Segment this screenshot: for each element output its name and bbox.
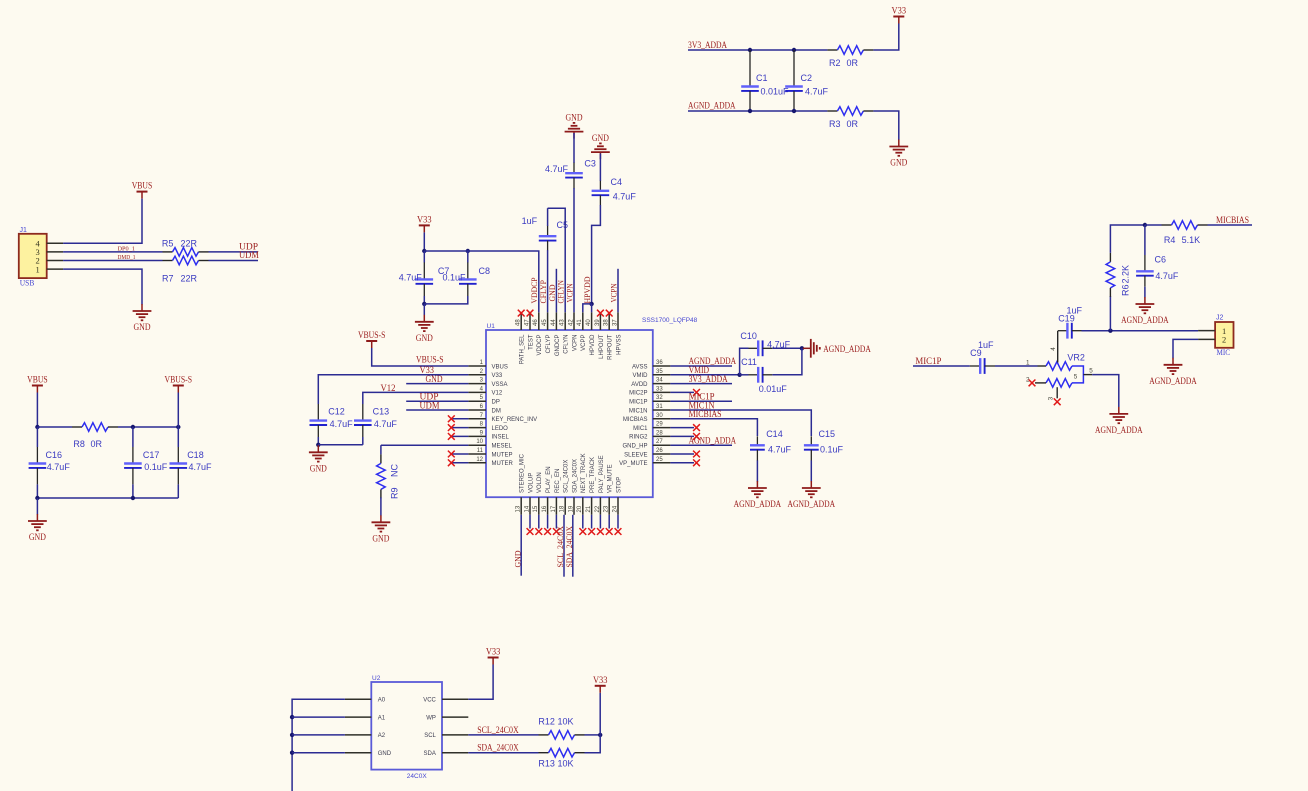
svg-text:VBUS: VBUS <box>27 375 48 385</box>
wire <box>132 484 134 498</box>
svg-text:0.1uF: 0.1uF <box>144 462 168 472</box>
svg-text:3V3_ADDA: 3V3_ADDA <box>688 40 727 50</box>
svg-text:MICBIAS: MICBIAS <box>689 409 722 419</box>
resistor R12 <box>539 731 585 740</box>
svg-text:UDM: UDM <box>239 250 259 260</box>
power V33 <box>486 647 501 665</box>
svg-text:HPVDD: HPVDD <box>590 334 596 356</box>
svg-text:MIC: MIC <box>1217 347 1231 357</box>
wire C5 to pin45 <box>547 250 549 312</box>
svg-text:VCPN: VCPN <box>572 335 578 352</box>
svg-text:USB: USB <box>20 278 35 288</box>
svg-text:NC: NC <box>390 464 400 477</box>
wire C12-C13 bottom <box>318 444 363 446</box>
wire to GND <box>423 304 425 315</box>
wire SDA <box>468 752 538 754</box>
wire pin24 nc <box>617 515 619 529</box>
wire to V33 <box>873 24 898 51</box>
svg-text:PATH_SEL: PATH_SEL <box>520 334 526 364</box>
svg-text:4.7uF: 4.7uF <box>613 191 637 201</box>
junction <box>598 733 602 737</box>
pin 4 V12 <box>468 386 502 396</box>
svg-text:46: 46 <box>533 319 539 326</box>
wire SCL_24C0X pin18 <box>563 515 565 577</box>
wire DMD_1 <box>63 260 162 262</box>
wire to GND <box>873 111 898 140</box>
ground <box>28 514 47 542</box>
wire <box>1144 287 1146 298</box>
svg-text:19: 19 <box>568 505 574 512</box>
junction <box>800 346 804 350</box>
svg-text:4.7uF: 4.7uF <box>330 419 354 429</box>
wire pin26 nc <box>670 453 694 455</box>
svg-text:12: 12 <box>476 457 483 463</box>
no-connect X pin 33 <box>693 389 700 396</box>
svg-text:RHPOUT: RHPOUT <box>608 334 614 360</box>
svg-text:GND: GND <box>426 374 443 384</box>
svg-text:GND: GND <box>378 751 392 757</box>
svg-text:GND_HP: GND_HP <box>622 444 647 450</box>
power VBUS-S <box>165 375 193 393</box>
svg-text:C1: C1 <box>756 73 768 83</box>
svg-text:4: 4 <box>1050 347 1057 351</box>
svg-text:DMD_1: DMD_1 <box>118 255 136 261</box>
wire C5 to pin43 <box>548 208 566 312</box>
svg-text:VBUS-S: VBUS-S <box>165 375 193 385</box>
wire A2 <box>292 734 345 736</box>
svg-text:R3: R3 <box>829 119 841 129</box>
junction <box>131 496 135 500</box>
svg-text:4.7uF: 4.7uF <box>189 462 213 472</box>
svg-text:VP_MUTE: VP_MUTE <box>619 461 647 467</box>
svg-text:KEY_RENC_INV: KEY_RENC_INV <box>492 417 538 423</box>
capacitor C13 <box>354 404 372 437</box>
svg-text:5.1K: 5.1K <box>1182 235 1201 245</box>
pin 2 V33 <box>468 369 502 379</box>
svg-text:22: 22 <box>595 505 601 512</box>
capacitor C4 <box>592 181 610 205</box>
junction <box>792 48 796 52</box>
svg-text:0.1uF: 0.1uF <box>443 273 467 283</box>
no-connect X pin 20 <box>579 528 586 535</box>
pin 43 CFLYN <box>560 312 570 353</box>
svg-text:WP: WP <box>426 715 436 721</box>
wire MICBIAS rail <box>1110 225 1145 253</box>
svg-text:20: 20 <box>577 505 583 512</box>
svg-text:C5: C5 <box>557 220 569 230</box>
svg-text:38: 38 <box>604 319 610 326</box>
no-connect X pin 14 <box>527 528 534 535</box>
wire AGND_ADDA pin27 <box>670 444 732 446</box>
svg-text:MIC1: MIC1 <box>633 426 648 432</box>
pin 16 PLAY_EN <box>542 466 552 514</box>
svg-text:GND: GND <box>372 533 389 543</box>
svg-text:26: 26 <box>656 448 663 454</box>
pin 14 VOLUP <box>524 473 534 515</box>
junction <box>589 302 593 306</box>
wire <box>467 251 469 263</box>
wire <box>36 484 38 498</box>
wire UDP to pin5 <box>406 400 468 402</box>
resistor R13 <box>539 748 585 757</box>
J2 pin 2 <box>1198 335 1226 345</box>
capacitor C11 <box>749 367 773 383</box>
wire to C10 <box>740 348 749 375</box>
power VBUS <box>27 375 48 393</box>
svg-text:22R: 22R <box>181 238 198 248</box>
svg-text:V33: V33 <box>417 214 432 224</box>
wire <box>573 133 575 163</box>
svg-text:MUTEP: MUTEP <box>492 452 513 458</box>
svg-text:R6: R6 <box>1121 284 1131 296</box>
svg-text:V12: V12 <box>492 391 503 397</box>
wire VCPN net pin37 <box>617 269 619 313</box>
svg-text:AGND_ADDA: AGND_ADDA <box>734 499 782 509</box>
pin 17 REC_EN <box>551 469 561 515</box>
pin 3 VSSA <box>468 378 507 388</box>
svg-text:R13: R13 <box>538 759 555 769</box>
svg-text:SLEEVE: SLEEVE <box>624 452 647 458</box>
svg-text:11: 11 <box>477 448 484 454</box>
capacitor C7 <box>416 262 434 296</box>
svg-text:V33: V33 <box>492 373 503 379</box>
wire <box>423 251 425 263</box>
wire to R6 <box>1109 296 1111 331</box>
power VBUS <box>132 181 153 199</box>
wire MIC1P pin32 <box>670 400 732 402</box>
svg-text:MIC1P: MIC1P <box>629 400 647 406</box>
wire <box>177 427 179 447</box>
wire VBUS to J1 pin4 <box>63 199 142 244</box>
svg-text:AGND_ADDA: AGND_ADDA <box>688 101 736 111</box>
svg-text:C11: C11 <box>741 357 757 367</box>
svg-text:MICBIAS: MICBIAS <box>1216 215 1249 225</box>
wire pin9 nc <box>451 435 468 437</box>
capacitor C9 <box>970 358 995 374</box>
U2 pin A0 <box>345 698 386 704</box>
svg-text:2: 2 <box>1222 335 1226 345</box>
svg-text:HPVSS: HPVSS <box>616 335 622 355</box>
pin 22 PALY_PAUSE <box>595 455 605 514</box>
pin 36 AVSS <box>632 360 670 370</box>
wire <box>585 735 601 753</box>
no-connect X pin 28 <box>693 433 700 440</box>
no-connect X pin 23 <box>606 528 613 535</box>
svg-text:VDDCP: VDDCP <box>537 335 543 356</box>
wire UDM to pin6 <box>406 409 468 411</box>
svg-text:27: 27 <box>656 439 663 445</box>
svg-text:SDA_24C0X: SDA_24C0X <box>477 743 519 753</box>
pin 20 NEXT_TRACK <box>577 453 587 514</box>
svg-text:SCL_24C0X: SCL_24C0X <box>477 725 519 735</box>
wire 3V3_ADDA pin34 <box>670 383 732 385</box>
no-connect X pin 17 <box>553 528 560 535</box>
wire J1 pin1 to GND <box>63 269 142 304</box>
ground AGND_ADDA <box>788 481 836 509</box>
pin 1 VBUS <box>468 360 507 370</box>
wire 3V3_ADDA <box>688 49 827 51</box>
svg-text:C14: C14 <box>766 429 783 439</box>
capacitor C2 <box>785 50 803 111</box>
svg-text:3: 3 <box>1047 396 1054 400</box>
wire UDM <box>209 260 259 262</box>
pin 41 VCPP <box>577 312 587 351</box>
pin 28 RING2 <box>629 430 670 440</box>
svg-text:24C0X: 24C0X <box>407 773 428 780</box>
svg-text:2.2K: 2.2K <box>1121 265 1131 284</box>
wire to GND <box>36 498 38 515</box>
wire <box>585 734 601 736</box>
ground AGND_ADDA <box>1095 407 1143 435</box>
svg-text:MIC1P: MIC1P <box>915 356 941 366</box>
power V33 <box>593 675 608 693</box>
svg-text:C18: C18 <box>187 450 204 460</box>
resistor R2 <box>827 46 873 55</box>
svg-text:35: 35 <box>656 369 663 375</box>
pin 44 GNDCP <box>551 312 561 356</box>
wire C19 to J2 <box>1082 330 1199 332</box>
pin 27 GND_HP <box>622 439 670 449</box>
ground AGND_ADDA <box>1121 297 1169 325</box>
pin 8 LEDO <box>468 422 508 432</box>
svg-text:13: 13 <box>516 505 522 512</box>
pin 7 KEY_RENC_INV <box>468 413 537 423</box>
wire GND to pin3 <box>406 383 468 385</box>
wire <box>177 484 179 498</box>
svg-text:GND: GND <box>890 158 907 168</box>
capacitor C6 <box>1136 255 1154 287</box>
no-connect X pin 11 <box>448 451 455 458</box>
wire pin16 nc <box>547 515 549 529</box>
capacitor C15 <box>804 436 819 460</box>
ground <box>889 140 908 168</box>
wire <box>317 437 319 445</box>
wire SDA_24C0X pin19 <box>572 515 574 577</box>
svg-text:45: 45 <box>542 319 548 326</box>
svg-text:10K: 10K <box>558 759 574 769</box>
svg-text:GND: GND <box>512 551 522 568</box>
resistor R3 <box>827 107 873 116</box>
junction <box>748 48 752 52</box>
wire pin28 nc <box>670 435 694 437</box>
ground AGND_ADDA <box>1149 358 1197 386</box>
resistor R6 <box>1106 253 1115 297</box>
svg-text:CFLYN: CFLYN <box>564 335 570 354</box>
connector J2 <box>1215 322 1233 348</box>
wire MIC1P <box>913 365 970 367</box>
wire pin17 nc <box>555 515 557 529</box>
svg-text:V33: V33 <box>892 6 907 16</box>
pin 42 VCPN <box>568 312 578 351</box>
capacitor C16 <box>29 447 47 484</box>
U2 pin SCL <box>424 733 468 739</box>
svg-text:U2: U2 <box>372 675 381 682</box>
svg-text:DM: DM <box>492 408 501 414</box>
wire <box>1145 224 1162 226</box>
svg-text:SDA: SDA <box>424 751 436 757</box>
svg-text:GND: GND <box>547 285 557 302</box>
svg-text:4.7uF: 4.7uF <box>47 462 71 472</box>
svg-text:C15: C15 <box>819 429 836 439</box>
svg-text:44: 44 <box>551 319 557 326</box>
svg-text:28: 28 <box>656 430 663 436</box>
svg-text:SDA_24C0X: SDA_24C0X <box>572 459 578 493</box>
svg-text:VBUS: VBUS <box>132 181 153 191</box>
junction <box>422 249 426 253</box>
svg-text:MESEL: MESEL <box>492 444 513 450</box>
no-connect X pin 29 <box>693 424 700 431</box>
svg-text:R12: R12 <box>538 717 555 727</box>
pin 9 INSEL <box>468 430 509 440</box>
svg-text:3V3_ADDA: 3V3_ADDA <box>689 374 728 384</box>
wire C4 to pin40 <box>592 205 601 304</box>
svg-text:1: 1 <box>36 264 40 274</box>
svg-text:0.01uF: 0.01uF <box>759 384 788 394</box>
svg-text:16: 16 <box>542 505 548 512</box>
svg-text:0R: 0R <box>91 439 103 449</box>
wire <box>423 296 425 304</box>
svg-text:31: 31 <box>656 404 663 410</box>
svg-text:22R: 22R <box>181 274 198 284</box>
no-connect X VR2 pin 3 <box>1054 398 1061 405</box>
wire pin11 nc <box>451 453 468 455</box>
svg-text:AGND_ADDA: AGND_ADDA <box>823 344 871 354</box>
junction <box>316 443 320 447</box>
pin 38 RHPOUT <box>604 312 614 360</box>
svg-text:AGND_ADDA: AGND_ADDA <box>689 436 737 446</box>
capacitor C12 <box>310 404 328 437</box>
wire AGND_ADDA pin36 <box>670 365 732 367</box>
svg-text:1: 1 <box>1026 359 1030 366</box>
svg-text:VCPN: VCPN <box>564 284 574 303</box>
wire pin14 nc <box>529 515 531 529</box>
U2 pin A2 <box>345 733 386 739</box>
svg-text:32: 32 <box>656 395 663 401</box>
ground <box>372 515 391 543</box>
pin 39 LHPOUT <box>595 312 605 359</box>
pin 45 CFLYP <box>542 312 552 353</box>
svg-text:TEST: TEST <box>528 334 534 350</box>
pin 13 STEREO_MIC <box>516 453 526 514</box>
pin 12 MUTER <box>468 457 513 467</box>
wire V33 to pin46 <box>424 251 539 312</box>
svg-text:18: 18 <box>560 505 566 512</box>
svg-text:GND: GND <box>29 532 46 542</box>
pin 24 STOP <box>612 477 622 515</box>
resistor R9 <box>377 454 386 498</box>
svg-text:0.1uF: 0.1uF <box>820 445 844 455</box>
svg-text:5: 5 <box>1089 367 1093 374</box>
svg-text:VOLUP: VOLUP <box>528 473 534 493</box>
U2 pin VCC <box>423 698 468 704</box>
svg-text:INSEL: INSEL <box>492 435 510 441</box>
svg-text:GND: GND <box>592 133 609 143</box>
svg-text:LEDO: LEDO <box>492 426 509 432</box>
svg-text:MIC2P: MIC2P <box>629 391 647 397</box>
svg-text:UDM: UDM <box>420 400 440 410</box>
svg-text:43: 43 <box>560 319 566 326</box>
no-connect X pin 21 <box>588 528 595 535</box>
junction <box>290 733 294 737</box>
svg-text:J1: J1 <box>20 227 28 234</box>
svg-text:MIC1N: MIC1N <box>629 408 648 414</box>
svg-text:10K: 10K <box>558 717 574 727</box>
wire AGND_ADDA <box>688 110 827 112</box>
svg-text:C4: C4 <box>611 177 623 187</box>
wire VR2 pin5 to ground <box>1092 375 1119 407</box>
svg-text:VCPN: VCPN <box>608 284 618 303</box>
junction <box>422 302 426 306</box>
wire pin22 nc <box>599 515 601 529</box>
svg-text:SCL_24C0X: SCL_24C0X <box>564 460 570 493</box>
capacitor C10 <box>749 340 773 356</box>
svg-text:47: 47 <box>524 319 530 326</box>
svg-text:AGND_ADDA: AGND_ADDA <box>1095 425 1143 435</box>
svg-text:PALY_PAUSE: PALY_PAUSE <box>599 455 605 493</box>
pin 33 MIC2P <box>629 386 670 396</box>
svg-text:48: 48 <box>516 319 522 326</box>
capacitor C18 <box>170 447 188 484</box>
no-connect X pin 7 <box>448 415 455 422</box>
resistor R5 <box>163 248 209 257</box>
junction <box>792 109 796 113</box>
wire A1 <box>292 716 345 718</box>
junction <box>1108 329 1112 333</box>
wire <box>36 427 38 447</box>
svg-text:15: 15 <box>533 505 539 512</box>
svg-text:37: 37 <box>612 319 618 326</box>
pin 21 PRE_TRACK <box>586 457 596 515</box>
no-connect X pin 8 <box>448 424 455 431</box>
svg-text:23: 23 <box>604 505 610 512</box>
resistor R7 <box>163 256 209 265</box>
pin 15 VOLDN <box>533 472 543 514</box>
svg-text:VBUS-S: VBUS-S <box>358 330 386 340</box>
svg-text:NEXT_TRACK: NEXT_TRACK <box>581 453 587 493</box>
resistor R8 <box>72 423 118 432</box>
pin 40 HPVDD <box>586 312 596 355</box>
wire to C6 <box>1144 225 1146 255</box>
wire bottom rail <box>37 497 178 499</box>
junction <box>290 715 294 719</box>
wire pin7 nc <box>451 418 468 420</box>
svg-text:VCC: VCC <box>423 698 436 704</box>
pin 46 VDDCP <box>533 312 543 355</box>
svg-text:33: 33 <box>656 386 663 392</box>
svg-text:34: 34 <box>656 378 663 384</box>
no-connect X pin 47 <box>527 310 534 317</box>
wire R9 to GND <box>380 497 382 515</box>
svg-text:1uF: 1uF <box>522 216 538 226</box>
pin 31 MIC1N <box>629 404 671 414</box>
capacitor C17 <box>124 447 142 484</box>
junction <box>35 425 39 429</box>
ground <box>591 133 610 159</box>
power VBUS-S <box>358 330 386 348</box>
wire pin15 nc <box>538 515 540 529</box>
pin 34 AVDD <box>631 378 670 388</box>
svg-text:41: 41 <box>577 319 583 326</box>
wire V33 to pin2 <box>318 375 468 404</box>
junction <box>35 496 39 500</box>
svg-text:R8: R8 <box>73 439 85 449</box>
svg-text:C12: C12 <box>328 407 345 417</box>
wire <box>599 154 601 182</box>
U2 pin SDA <box>424 751 469 757</box>
svg-text:SCL: SCL <box>424 733 436 739</box>
svg-text:GNDCP: GNDCP <box>555 335 561 357</box>
svg-text:VOLDN: VOLDN <box>537 472 543 493</box>
